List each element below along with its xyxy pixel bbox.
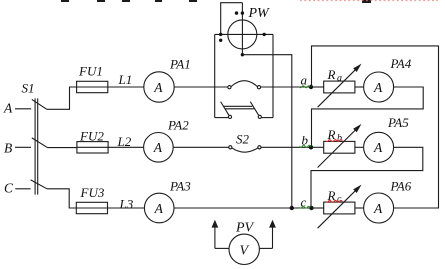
svg-text:L2: L2 — [117, 134, 132, 149]
ammeter PA3 — [144, 193, 174, 223]
svg-text:FU2: FU2 — [79, 129, 104, 144]
svg-text:B: B — [4, 141, 12, 156]
svg-text:PW: PW — [248, 6, 271, 21]
switch S1 blade (pole C) — [31, 180, 47, 189]
svg-text:PA6: PA6 — [390, 179, 412, 194]
wire: Ra to PA4 — [355, 86, 364, 88]
svg-text:PA4: PA4 — [390, 56, 412, 71]
node c — [309, 206, 313, 210]
switch S1 gang link — [34, 98, 36, 194]
wire: PA5 return to node c — [311, 147, 423, 208]
ammeter PA1 — [144, 72, 174, 102]
svg-text:PA1: PA1 — [169, 57, 191, 72]
svg-text:C: C — [4, 181, 14, 196]
rheostat Rb — [312, 146, 324, 148]
svg-text:L1: L1 — [118, 72, 133, 87]
wire: PW voltage lead down to phase c — [242, 55, 291, 208]
removable jumper (box bottom) — [228, 115, 231, 118]
svg-text:b: b — [337, 133, 342, 144]
switch S1 blade (pole A) — [32, 99, 47, 109]
svg-text:A: A — [373, 140, 383, 155]
measuring box outline (PW circuit) — [214, 34, 216, 117]
wattmeter PW — [228, 20, 257, 49]
wire: pole A to fuse FU1 — [47, 87, 77, 109]
red squiggle under Rc — [326, 200, 343, 202]
wire: contact to node a — [261, 86, 312, 88]
green squiggle under a — [299, 86, 310, 88]
wire: node a up to top rail, across and down right rail to PA6 output (delta closing wire) — [312, 46, 439, 208]
svg-text:A: A — [373, 201, 383, 216]
junction dot at c row — [290, 206, 294, 210]
wire: PA4 return to node b — [312, 87, 424, 147]
svg-text:A: A — [373, 80, 383, 95]
cropped text fragments (top edge) — [61, 0, 371, 3]
wire: pole B to fuse FU2 — [48, 147, 77, 149]
svg-text:PA3: PA3 — [169, 179, 191, 194]
svg-text:PV: PV — [235, 221, 255, 236]
link contact on row a (inside box) — [228, 86, 231, 89]
wire: FU2 to PA2, label L2 — [108, 146, 144, 148]
wire: PV left probe arrow — [214, 226, 216, 248]
node a — [309, 85, 313, 89]
ammeter PA4 — [364, 72, 394, 102]
green squiggle under c — [299, 206, 310, 208]
wire: PA3 to node c — [174, 207, 312, 209]
wire: Rc to PA6 — [355, 207, 364, 209]
green squiggle under b — [300, 145, 311, 147]
rheostat Rc — [312, 207, 324, 209]
wire: PA2 to switch S2 — [173, 146, 229, 148]
wire: FU3 to PA3, label L3 — [108, 207, 145, 209]
rheostat Ra — [312, 86, 324, 88]
switch S1 blade (pole B) — [32, 138, 48, 148]
wire: PW top bracket — [221, 3, 243, 35]
svg-text:FU1: FU1 — [78, 64, 103, 79]
svg-text:A: A — [154, 201, 164, 216]
svg-text:V: V — [240, 244, 250, 259]
wire: PV right probe arrow — [272, 226, 274, 248]
wire: PA1 to link terminal — [174, 86, 228, 88]
PW polarity dots — [219, 11, 266, 56]
svg-text:A: A — [153, 140, 163, 155]
svg-text:L3: L3 — [119, 197, 134, 212]
svg-text:A: A — [153, 80, 163, 95]
fuse FU1 — [77, 81, 108, 92]
svg-text:S2: S2 — [236, 132, 250, 147]
wire: pole C to fuse FU3 — [47, 189, 76, 208]
ammeter PA5 — [364, 132, 394, 162]
svg-text:R: R — [327, 67, 336, 82]
ammeter PA2 — [144, 133, 174, 163]
node b — [309, 145, 313, 149]
svg-text:PA5: PA5 — [387, 115, 409, 130]
wire: S2 to node b — [261, 146, 312, 148]
fuse FU2 — [77, 142, 108, 153]
wire: Rb to PA5 — [355, 146, 364, 148]
svg-text:c: c — [337, 194, 342, 205]
svg-text:A: A — [3, 101, 13, 116]
svg-text:S1: S1 — [22, 81, 35, 96]
red squiggle under Rb — [326, 140, 343, 142]
switch S2 — [229, 146, 232, 149]
voltmeter PV — [229, 234, 259, 264]
cropped red squiggle fragment (top right edge) — [300, 0, 438, 2]
wire: phase C lead — [15, 188, 30, 190]
fuse FU3 — [76, 202, 107, 213]
svg-text:FU3: FU3 — [80, 185, 105, 200]
wire: FU1 to PA1, label L1 — [108, 86, 144, 88]
ammeter PA6 — [364, 193, 394, 223]
svg-text:a: a — [301, 73, 308, 88]
wire: phase B lead — [15, 146, 31, 148]
svg-text:PA2: PA2 — [167, 118, 189, 133]
svg-text:a: a — [337, 73, 342, 84]
wire: phase A lead — [15, 108, 31, 110]
